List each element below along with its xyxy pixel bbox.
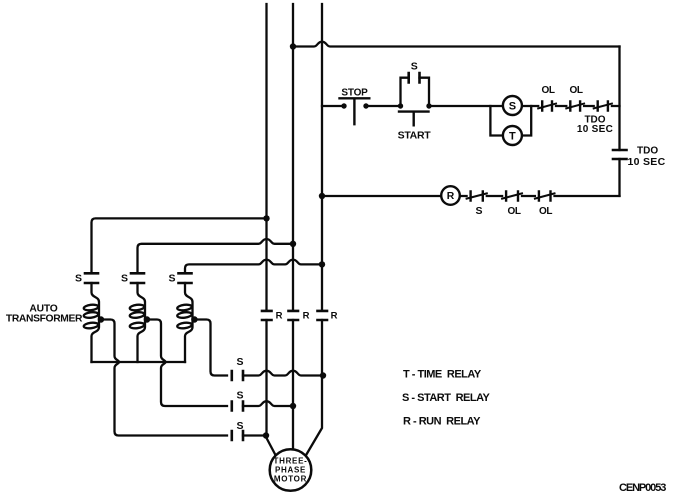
svg-text:S: S (475, 205, 482, 217)
svg-text:STOP: STOP (341, 87, 368, 98)
node row 3 on L1 (263, 432, 269, 438)
contact S run-transition row 3 (232, 431, 243, 440)
node tap winding 2 (144, 316, 150, 322)
node lower rung on L3 (319, 193, 325, 199)
node feeder 2 on L2 (290, 241, 296, 247)
wire control tap from L2 with hop over L3 (293, 42, 620, 47)
contact R line 3 (318, 311, 328, 320)
relay coil R (441, 186, 460, 205)
contact OL 1 (lower rung) (506, 192, 518, 201)
wire tap 2 with jog over bus (145, 320, 227, 407)
node tap winding 1 (98, 316, 104, 322)
contact OL 2 (lower rung) (539, 192, 551, 201)
svg-text:S: S (411, 61, 418, 73)
node row 2 on L2 (290, 403, 296, 409)
svg-text:10 SEC: 10 SEC (628, 156, 666, 168)
motor M1 three-phase (270, 449, 312, 491)
contact R line 1 (262, 311, 272, 320)
wire row 3 (243, 434, 266, 436)
wire feeder 2 with hop over L1 (138, 239, 294, 273)
svg-text:THREE-: THREE- (274, 456, 308, 465)
wire lower rung (322, 195, 620, 197)
svg-text:S - START RELAY: S - START RELAY (402, 392, 491, 404)
svg-text:CENP0053: CENP0053 (619, 482, 666, 494)
contact S (lower rung) (471, 192, 483, 201)
pushbutton STOP (341, 103, 346, 108)
wire L1 lower to motor (267, 320, 277, 456)
wire row 1 with hops over L1,L2 (243, 371, 323, 376)
svg-text:S: S (236, 356, 243, 368)
wire tap 1 with jog over bus (99, 320, 227, 436)
node feeder 1 on L1 (263, 215, 269, 221)
wire upper rung (322, 105, 620, 107)
contact R line 2 (289, 311, 299, 320)
contact S seal-in (parallel branch) (401, 78, 430, 106)
svg-text:R: R (331, 311, 338, 322)
wire tap 3 (193, 320, 228, 376)
node row 1 on L3 (320, 372, 326, 378)
node control tap on L2 (290, 43, 296, 49)
svg-text:R: R (303, 311, 310, 322)
svg-text:R: R (447, 191, 455, 202)
svg-text:S: S (236, 420, 243, 432)
svg-text:OL: OL (541, 85, 554, 96)
svg-text:R - RUN RELAY: R - RUN RELAY (403, 416, 481, 428)
svg-text:T: T (509, 130, 516, 142)
contact S run-transition row 2 (232, 402, 243, 411)
contact S autotransformer branch 3 (179, 273, 192, 283)
phase line L1 upper (265, 4, 267, 311)
relay coil S (503, 96, 522, 115)
svg-text:S: S (168, 273, 175, 285)
autotransformer winding 1 (92, 283, 100, 362)
relay coil T parallel branch (490, 106, 531, 136)
svg-text:PHASE: PHASE (275, 466, 306, 475)
svg-text:START: START (398, 129, 432, 141)
svg-text:OL: OL (569, 85, 582, 96)
svg-text:S: S (75, 273, 82, 285)
contact S autotransformer branch 2 (131, 273, 144, 283)
svg-text:TRANSFORMER: TRANSFORMER (6, 314, 83, 325)
svg-text:MOTOR: MOTOR (274, 475, 307, 484)
wire star bus (92, 361, 186, 363)
svg-text:S: S (509, 100, 516, 112)
wire right rail lower (618, 159, 620, 196)
svg-text:S: S (236, 389, 243, 401)
node feeder 3 on L3 (319, 261, 325, 267)
wire feeder 1 to autotransformer (92, 218, 267, 273)
contact S run-transition row 1 (232, 371, 243, 380)
contact OL 2 (upper rung) (570, 102, 580, 111)
svg-text:10 SEC: 10 SEC (577, 124, 613, 135)
autotransformer winding 2 (138, 283, 146, 362)
wire L3 lower to motor (306, 320, 323, 456)
svg-text:R: R (276, 311, 283, 322)
svg-text:OL: OL (539, 206, 552, 217)
phase line L2 upper (292, 4, 294, 311)
wire feeder 3 with hops over L2 and L1 (185, 260, 322, 274)
autotransformer winding 3 (185, 283, 193, 362)
svg-text:S: S (121, 273, 128, 285)
relay coil T (503, 126, 522, 145)
node tap winding 3 (191, 316, 197, 322)
svg-text:T - TIME RELAY: T - TIME RELAY (403, 369, 482, 381)
svg-text:TDO: TDO (637, 146, 658, 157)
phase line L3 upper (321, 4, 323, 311)
contact TDO timed (right rail) (613, 150, 627, 159)
wire row 2 with hop over L1 (243, 401, 293, 406)
contact S autotransformer branch 1 (85, 273, 98, 283)
wire right rail upper (618, 47, 620, 151)
wire L2 lower to motor (292, 320, 294, 449)
contact OL 1 (upper rung) (542, 102, 552, 111)
svg-text:OL: OL (507, 206, 520, 217)
contact TDO instantaneous (upper rung) (598, 102, 608, 111)
pushbutton START (398, 103, 403, 108)
